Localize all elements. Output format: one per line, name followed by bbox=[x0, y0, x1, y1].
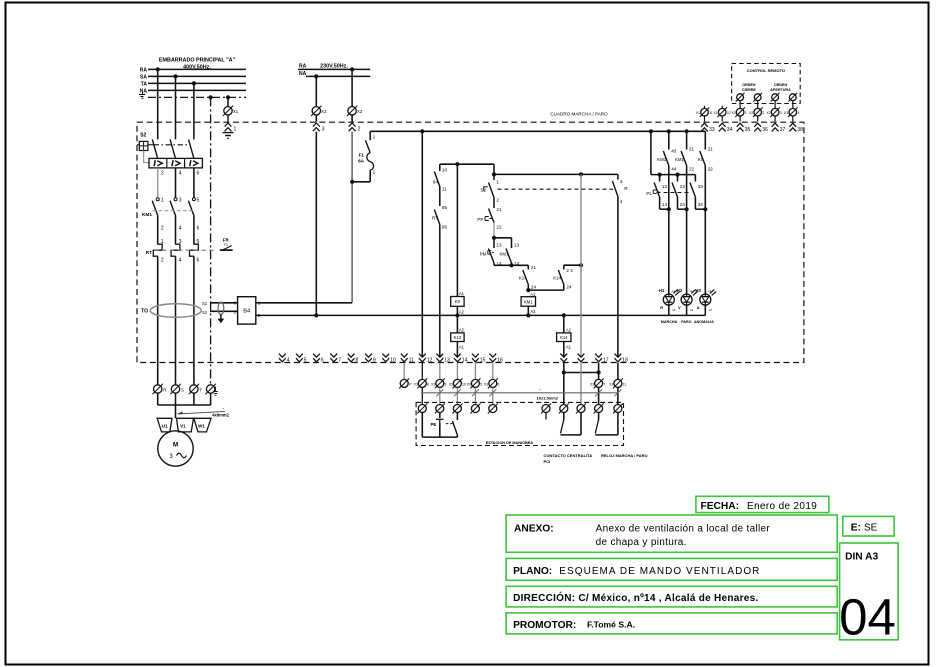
label S1 S2 bbox=[202, 301, 208, 315]
label ORDEN APERTURA bbox=[770, 83, 791, 92]
svg-text:22: 22 bbox=[708, 167, 714, 172]
svg-text:33: 33 bbox=[709, 127, 715, 133]
busbar TA bbox=[148, 82, 246, 84]
connector X1 bbox=[223, 106, 239, 116]
svg-text:R: R bbox=[660, 305, 663, 310]
svg-text:H2: H2 bbox=[677, 288, 683, 293]
wire remote drop 1 bbox=[739, 101, 741, 108]
node bus PL bbox=[649, 129, 653, 133]
svg-text:R: R bbox=[624, 186, 628, 192]
wire bus to terminal 12 bbox=[421, 131, 423, 356]
svg-text:21: 21 bbox=[708, 146, 714, 151]
busbar SA bbox=[148, 75, 246, 77]
wire rail to K14 bbox=[563, 315, 565, 333]
svg-text:33: 33 bbox=[698, 184, 704, 189]
wire B4 pin1 to X2 bbox=[256, 302, 352, 304]
relay RT link bbox=[154, 249, 217, 251]
node rail X3 bbox=[314, 313, 318, 317]
wire PL drop bbox=[650, 131, 652, 174]
svg-text:K0: K0 bbox=[455, 299, 461, 304]
node bus-K line bbox=[420, 129, 424, 133]
svg-text:ORDEN: ORDEN bbox=[742, 83, 756, 87]
svg-text:X3: X3 bbox=[784, 111, 788, 115]
connector row remote bbox=[696, 107, 800, 117]
svg-text:FECHA:: FECHA: bbox=[701, 501, 739, 512]
svg-text:X3: X3 bbox=[413, 383, 417, 387]
svg-text:x2: x2 bbox=[690, 308, 694, 312]
svg-text:21: 21 bbox=[531, 265, 537, 270]
contact PL label bbox=[646, 190, 659, 196]
connector X2 bbox=[347, 106, 363, 116]
contact FR bbox=[220, 238, 233, 251]
wire T RT-out bbox=[193, 256, 195, 384]
wire K14b top bbox=[564, 263, 583, 267]
svg-text:5: 5 bbox=[197, 197, 200, 203]
svg-text:A2: A2 bbox=[459, 309, 465, 314]
svg-text:X1: X1 bbox=[233, 109, 239, 114]
svg-text:8: 8 bbox=[427, 383, 429, 387]
connector R bbox=[153, 384, 167, 394]
svg-text:35: 35 bbox=[745, 127, 751, 133]
contact K0 21-22 bbox=[698, 131, 713, 294]
wire station stub bbox=[545, 413, 547, 420]
svg-text:15: 15 bbox=[480, 357, 486, 363]
label reloj bbox=[601, 453, 648, 458]
label B4 pins bbox=[234, 301, 261, 319]
svg-text:SE: SE bbox=[864, 522, 878, 533]
svg-text:12: 12 bbox=[727, 111, 731, 115]
wire X3 stub bbox=[315, 115, 317, 122]
breaker S2 blades bbox=[152, 139, 194, 158]
connector X3-7b bbox=[590, 378, 605, 388]
titleblock PLANO bbox=[506, 558, 837, 580]
contact R 3-4 bbox=[612, 174, 628, 356]
svg-text:KM1: KM1 bbox=[142, 212, 152, 218]
svg-text:2: 2 bbox=[161, 226, 164, 232]
svg-text:A2: A2 bbox=[566, 328, 572, 333]
svg-text:MARCHA: MARCHA bbox=[661, 320, 678, 324]
svg-text:de chapa y pintura.: de chapa y pintura. bbox=[596, 537, 687, 548]
svg-text:SA: SA bbox=[140, 74, 147, 80]
switch S2 handle bbox=[137, 133, 190, 163]
node PL 23 bbox=[675, 173, 679, 177]
svg-text:T: T bbox=[199, 388, 202, 393]
svg-text:21: 21 bbox=[689, 146, 695, 151]
enclosure CONTROL REMOTO bbox=[732, 64, 801, 104]
svg-text:X3: X3 bbox=[321, 109, 327, 114]
wire K14 to terminal bbox=[563, 342, 565, 357]
svg-text:1: 1 bbox=[496, 179, 499, 184]
contactor KM1 label bbox=[142, 212, 152, 218]
wire X2 drop bbox=[351, 69, 353, 106]
svg-text:14: 14 bbox=[662, 202, 668, 207]
wire terminal to X3-10 bbox=[456, 363, 458, 379]
busbar NA 230V bbox=[306, 75, 370, 77]
wire remote drop 2 bbox=[757, 101, 759, 108]
svg-text:X2: X2 bbox=[357, 109, 363, 114]
wire T KM1-RT bbox=[193, 216, 195, 245]
svg-text:X1: X1 bbox=[713, 111, 717, 115]
wire S KM1-RT bbox=[175, 216, 177, 245]
wire terminal 18 down bbox=[617, 363, 619, 379]
module B4 bbox=[238, 297, 256, 324]
svg-text:6A: 6A bbox=[358, 159, 365, 164]
svg-text:24: 24 bbox=[566, 284, 572, 289]
svg-text:13: 13 bbox=[514, 242, 520, 247]
svg-text:R: R bbox=[163, 388, 166, 393]
wire K14b join bbox=[528, 289, 564, 291]
svg-text:95: 95 bbox=[442, 205, 448, 210]
svg-text:X2: X2 bbox=[749, 111, 753, 115]
link S2-R bbox=[498, 188, 614, 190]
contact K14 23-24 bbox=[553, 265, 573, 290]
svg-text:Enero de 2019: Enero de 2019 bbox=[747, 501, 817, 512]
wire X3-9 to station bbox=[439, 388, 441, 405]
svg-text:RA: RA bbox=[140, 67, 148, 73]
busbar title 400V bbox=[159, 58, 236, 71]
svg-text:13: 13 bbox=[444, 357, 450, 363]
svg-text:ANEXO:: ANEXO: bbox=[514, 523, 554, 534]
switch centralita bbox=[561, 413, 582, 435]
node X3 tap bbox=[314, 74, 318, 78]
wire neutral rail bbox=[256, 314, 706, 316]
svg-text:10x1.5mm2: 10x1.5mm2 bbox=[537, 395, 559, 400]
svg-text:3: 3 bbox=[780, 111, 782, 115]
svg-text:X3: X3 bbox=[731, 111, 735, 115]
wire X3 to rail bbox=[315, 132, 317, 316]
wire PP to split bbox=[493, 223, 495, 238]
contact PM 13-14 bbox=[480, 238, 502, 266]
contactor KM1 poles bbox=[152, 198, 195, 216]
contact KM1 43-44 bbox=[657, 131, 677, 294]
svg-text:B4: B4 bbox=[243, 309, 250, 315]
contact K14 21-24 bbox=[519, 265, 537, 290]
svg-text:NA: NA bbox=[140, 88, 148, 94]
wire jumper bbox=[564, 372, 599, 374]
svg-text:S1: S1 bbox=[202, 301, 208, 306]
wire T breaker-KM1 bbox=[193, 168, 195, 198]
svg-text:ESTACION DE MANIOBRA: ESTACION DE MANIOBRA bbox=[486, 441, 534, 445]
terminals 33-38 bbox=[701, 123, 803, 133]
motor M bbox=[158, 431, 193, 466]
svg-text:KM1: KM1 bbox=[524, 299, 533, 304]
svg-text:37: 37 bbox=[780, 127, 786, 133]
svg-text:2: 2 bbox=[373, 135, 376, 140]
svg-text:4: 4 bbox=[287, 357, 290, 363]
wire R breaker-KM1 bbox=[157, 168, 159, 198]
svg-text:11: 11 bbox=[409, 357, 414, 363]
svg-text:EMBARRADO PRINCIPAL "A": EMBARRADO PRINCIPAL "A" bbox=[159, 58, 236, 64]
svg-text:11: 11 bbox=[623, 383, 627, 387]
svg-text:ESQUEMA DE MANDO VENTILADOR: ESQUEMA DE MANDO VENTILADOR bbox=[559, 566, 760, 577]
relay RT label bbox=[146, 250, 152, 256]
terminals 4-18 bbox=[279, 354, 628, 364]
ground bbox=[223, 133, 234, 139]
wire terminal to X3-5 bbox=[474, 363, 476, 379]
wire R KM1-RT bbox=[157, 216, 159, 245]
svg-text:9: 9 bbox=[373, 357, 376, 363]
svg-text:PROMOTOR:: PROMOTOR: bbox=[513, 620, 576, 631]
busbar RA 230V bbox=[298, 68, 370, 70]
svg-text:Anexo de ventilación a local d: Anexo de ventilación a local de taller bbox=[596, 523, 771, 534]
node F1 return bbox=[350, 180, 354, 184]
terminal 3 bbox=[313, 123, 325, 133]
svg-text:43: 43 bbox=[671, 148, 677, 153]
svg-text:X3: X3 bbox=[449, 383, 453, 387]
terminal 2 bbox=[349, 123, 361, 133]
label contacto centralita bbox=[544, 453, 593, 464]
node RA tap bbox=[156, 67, 160, 71]
svg-text:S: S bbox=[181, 388, 184, 393]
switch reloj bbox=[595, 413, 618, 435]
contact RT 95-96 bbox=[432, 205, 448, 357]
svg-text:M: M bbox=[173, 442, 178, 449]
motor terminals U1 V1 W1 bbox=[157, 418, 211, 432]
wire X1 to terminal bbox=[227, 115, 229, 122]
svg-text:1: 1 bbox=[161, 197, 164, 203]
wire terminal 11 stub bbox=[403, 363, 405, 379]
wire K0 to rail bbox=[456, 306, 458, 315]
node PL 13 bbox=[658, 173, 662, 177]
node jumper b bbox=[597, 370, 601, 374]
node bus KM1b bbox=[685, 129, 689, 133]
connector X3-10 bbox=[449, 378, 466, 388]
contactor KM1 terminals 2 4 6 bbox=[161, 226, 200, 232]
svg-text:PLANO:: PLANO: bbox=[513, 566, 552, 577]
svg-text:X3: X3 bbox=[590, 383, 594, 387]
wire S2-R feed bbox=[494, 173, 618, 175]
wire X2 down bbox=[351, 132, 353, 303]
svg-text:ANOMALIA: ANOMALIA bbox=[694, 320, 714, 324]
wire X1 drop bbox=[227, 97, 229, 106]
node S2 top bbox=[492, 172, 496, 176]
svg-text:13: 13 bbox=[662, 184, 668, 189]
svg-text:5: 5 bbox=[480, 383, 482, 387]
wire branch top bbox=[440, 163, 494, 165]
svg-text:X1: X1 bbox=[696, 111, 700, 115]
svg-text:2: 2 bbox=[161, 258, 164, 264]
svg-text:A1: A1 bbox=[459, 291, 465, 296]
svg-text:W1: W1 bbox=[198, 423, 205, 428]
svg-text:x2: x2 bbox=[709, 308, 713, 312]
svg-text:7: 7 bbox=[603, 383, 605, 387]
terminal gray chevron bbox=[578, 354, 585, 362]
titleblock FECHA bbox=[696, 496, 829, 512]
svg-text:8: 8 bbox=[356, 357, 359, 363]
svg-text:34: 34 bbox=[727, 127, 733, 133]
busbar title 230V bbox=[299, 64, 348, 77]
connector PE bbox=[205, 384, 217, 396]
node TA tap bbox=[192, 81, 196, 85]
wire control bus bbox=[370, 130, 705, 132]
node rail K14 bbox=[562, 313, 566, 317]
svg-text:24: 24 bbox=[680, 202, 686, 207]
svg-text:2: 2 bbox=[763, 111, 765, 115]
svg-text:H3: H3 bbox=[696, 288, 702, 293]
svg-text:CIERRE: CIERRE bbox=[742, 88, 756, 92]
svg-text:9: 9 bbox=[444, 383, 446, 387]
svg-text:PP: PP bbox=[477, 217, 483, 222]
link PL bbox=[657, 192, 692, 194]
svg-text:96: 96 bbox=[442, 225, 448, 230]
svg-text:23: 23 bbox=[680, 184, 686, 189]
coil K14 bbox=[557, 328, 572, 350]
svg-text:14: 14 bbox=[462, 357, 468, 363]
connector X3-6 bbox=[484, 378, 499, 388]
wire remote stubs bbox=[705, 106, 723, 108]
wire X2 stub bbox=[351, 115, 353, 122]
svg-text:3: 3 bbox=[179, 197, 182, 203]
svg-text:V1: V1 bbox=[180, 423, 186, 428]
titleblock E SE bbox=[843, 516, 894, 536]
svg-text:K13: K13 bbox=[454, 335, 462, 340]
wire PL out 1 bbox=[660, 207, 671, 211]
busbar PE label bbox=[139, 92, 145, 98]
lamp H3 bbox=[696, 288, 717, 315]
relay RT thermal elements bbox=[153, 244, 198, 256]
svg-text:PM: PM bbox=[480, 251, 487, 256]
wire phase T drop bbox=[193, 83, 195, 139]
node X2 tap bbox=[350, 67, 354, 71]
svg-text:APERTURA: APERTURA bbox=[770, 88, 791, 92]
contact KM1 13-14 bbox=[500, 238, 520, 266]
svg-text:TO: TO bbox=[141, 309, 148, 315]
svg-text:X2: X2 bbox=[766, 111, 770, 115]
svg-text:4: 4 bbox=[620, 199, 623, 204]
wire phase S drop bbox=[175, 76, 177, 139]
node jumper a bbox=[562, 370, 566, 374]
wire KM1 coil to rail bbox=[527, 306, 529, 315]
svg-text:17: 17 bbox=[603, 357, 609, 363]
svg-text:18: 18 bbox=[622, 357, 628, 363]
svg-text:6: 6 bbox=[497, 383, 499, 387]
svg-text:10: 10 bbox=[462, 383, 466, 387]
wire split right bbox=[494, 237, 512, 239]
lamp H2 bbox=[677, 288, 698, 315]
svg-text:PARO: PARO bbox=[681, 320, 692, 324]
wire X3 drop bbox=[315, 76, 317, 106]
svg-text:A2: A2 bbox=[459, 328, 465, 333]
svg-text:H1: H1 bbox=[659, 288, 665, 293]
relay RT terminals 2 4 6 bbox=[161, 258, 200, 264]
wire X3-5 to station bbox=[474, 388, 476, 405]
svg-text:6: 6 bbox=[321, 357, 324, 363]
wire PL out 3 bbox=[695, 207, 707, 211]
node rail KM1 bbox=[526, 313, 530, 317]
svg-text:2: 2 bbox=[496, 197, 499, 202]
node PE tap 2 bbox=[226, 95, 230, 99]
wire S2 bbox=[210, 310, 238, 312]
cable 10x1.5mm2 bbox=[421, 387, 621, 400]
contact B4 10-11 bbox=[433, 164, 448, 206]
wire phase R drop bbox=[157, 69, 159, 139]
wire S breaker-KM1 bbox=[175, 168, 177, 198]
node bus KM1a bbox=[667, 129, 671, 133]
enclosure CUADRO MARCHA/PARO bbox=[137, 112, 804, 363]
wire PL out 2 bbox=[678, 207, 689, 211]
node KM1 coil top bbox=[526, 288, 530, 292]
wire PE conductor bbox=[210, 97, 212, 384]
svg-text:A2: A2 bbox=[530, 309, 536, 314]
node rail K0 bbox=[455, 313, 459, 317]
coil K13 bbox=[451, 328, 465, 350]
svg-text:PL: PL bbox=[646, 191, 652, 196]
svg-text:1: 1 bbox=[745, 111, 747, 115]
svg-text:38: 38 bbox=[797, 127, 803, 133]
label lamp names bbox=[661, 320, 714, 324]
wire gray to station bbox=[580, 363, 582, 405]
wire S1 bbox=[210, 302, 238, 304]
connector T bbox=[189, 384, 203, 394]
contact PP 21-22 bbox=[477, 206, 502, 230]
svg-text:4: 4 bbox=[179, 226, 182, 232]
svg-text:CONTACTO CENTRALITA: CONTACTO CENTRALITA bbox=[544, 453, 593, 458]
svg-text:A1: A1 bbox=[530, 292, 536, 297]
node SA tap bbox=[173, 74, 177, 78]
wire outlet collect bbox=[158, 393, 211, 405]
svg-text:2 3: 2 3 bbox=[566, 268, 573, 273]
svg-text:10: 10 bbox=[442, 168, 448, 173]
svg-text:5: 5 bbox=[304, 357, 307, 363]
wire K14 feed bbox=[580, 174, 582, 356]
svg-text:DIRECCIÓN: C/ México, nº14 , A: DIRECCIÓN: C/ México, nº14 , Alcalá de H… bbox=[513, 591, 758, 604]
wire R RT-out bbox=[157, 256, 159, 384]
svg-text:S2: S2 bbox=[202, 310, 208, 315]
breaker S2 overcurrent units bbox=[149, 158, 202, 168]
wire X3-8 to station bbox=[421, 388, 423, 405]
svg-text:NA: NA bbox=[299, 71, 307, 77]
svg-text:X3: X3 bbox=[609, 383, 613, 387]
wire S2 branch corner bbox=[493, 164, 495, 174]
svg-text:TA: TA bbox=[141, 81, 148, 87]
breaker S2 terminals 2 4 6 bbox=[161, 171, 200, 177]
svg-text:16: 16 bbox=[497, 357, 503, 363]
svg-text:34: 34 bbox=[698, 202, 704, 207]
connector X3 bbox=[311, 106, 327, 116]
relay RT terminals 1 3 5 bbox=[161, 239, 200, 245]
svg-text:CUADRO MARCHA / PARO: CUADRO MARCHA / PARO bbox=[550, 112, 608, 117]
svg-text:PCI: PCI bbox=[544, 459, 551, 464]
svg-text:6: 6 bbox=[197, 258, 200, 264]
contact PL 13-23-33 bbox=[654, 175, 703, 210]
lamp H1 bbox=[659, 288, 680, 315]
svg-text:ORDEN: ORDEN bbox=[774, 83, 788, 87]
svg-text:x1: x1 bbox=[690, 289, 694, 293]
wire remote drop 3 bbox=[774, 101, 776, 108]
wire remote to terminals bbox=[705, 116, 793, 121]
svg-text:CONTROL REMOTO: CONTROL REMOTO bbox=[747, 68, 785, 73]
titleblock ANEXO bbox=[506, 515, 837, 552]
wire X3-10 to station bbox=[456, 388, 458, 405]
svg-text:RT: RT bbox=[146, 250, 152, 256]
svg-text:21: 21 bbox=[496, 207, 502, 212]
wire S2-PP bbox=[493, 198, 495, 206]
svg-text:3: 3 bbox=[620, 179, 623, 184]
node PE tap 1 bbox=[209, 95, 213, 99]
terminal 1 bbox=[225, 123, 237, 133]
busbar PE bbox=[148, 96, 246, 98]
connector X3-8 bbox=[413, 378, 428, 388]
wire X3-6 to station bbox=[492, 388, 494, 405]
titleblock PROMOTOR bbox=[506, 613, 837, 634]
connector X3-5 bbox=[467, 378, 482, 388]
svg-text:13: 13 bbox=[496, 242, 502, 247]
svg-text:4: 4 bbox=[798, 111, 800, 115]
svg-text:DIN A3: DIN A3 bbox=[845, 552, 878, 563]
cable label 4x6mm2 bbox=[177, 406, 230, 418]
svg-text:X3: X3 bbox=[431, 383, 435, 387]
coil K0 bbox=[451, 291, 465, 314]
